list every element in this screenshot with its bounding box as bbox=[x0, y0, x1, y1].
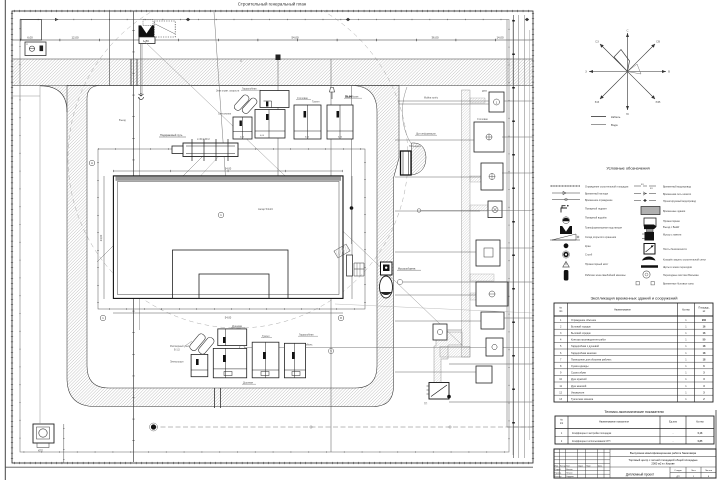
line x352 with dot bbox=[351, 86, 353, 244]
svg-text:Сидоров: Сидоров bbox=[566, 476, 574, 478]
top temp building E bbox=[327, 105, 353, 139]
svg-text:Проектируемый водопровод: Проектируемый водопровод bbox=[663, 200, 696, 203]
svg-text:Посты безопасности: Посты безопасности bbox=[663, 248, 687, 251]
svg-text:№док: №док bbox=[578, 464, 583, 467]
top tilted boats bbox=[233, 91, 258, 117]
svg-text:14,00: 14,00 bbox=[497, 36, 504, 40]
legend R4 temp building gray bbox=[641, 207, 660, 215]
hydrant circle marker mid right bbox=[417, 209, 421, 213]
svg-text:Туалет: Туалет bbox=[312, 101, 320, 104]
svg-text:Бытовой городок: Бытовой городок bbox=[571, 332, 592, 335]
svg-text:Душ мужской: Душ мужской bbox=[571, 378, 587, 381]
crane hook bbox=[139, 93, 144, 100]
svg-text:2000 м2 в г.Кирове: 2000 м2 в г.Кирове bbox=[651, 462, 675, 466]
legend R3 power bbox=[634, 200, 656, 202]
svg-text:Сушка обуви: Сушка обуви bbox=[571, 372, 587, 375]
svg-text:Въезд с Badkf: Въезд с Badkf bbox=[663, 226, 679, 229]
water tank ellipse bbox=[380, 276, 393, 298]
right fence vertical x507 bbox=[506, 20, 508, 428]
walkway hatch right column bbox=[462, 90, 471, 357]
bottom building small bbox=[191, 354, 208, 376]
right temp building 8 bbox=[486, 338, 503, 356]
building top gray band bbox=[116, 177, 342, 181]
legend R1 waterline bbox=[634, 185, 656, 187]
svg-text:Пожарный гидрант: Пожарный гидрант bbox=[585, 207, 608, 210]
work zone boundary bbox=[98, 149, 365, 309]
bottom tilted boats bbox=[189, 330, 216, 357]
svg-text:СВ: СВ bbox=[656, 40, 660, 44]
svg-text:Коэффициент использования СГП: Коэффициент использования СГП bbox=[572, 440, 611, 443]
utility box A with circle bbox=[25, 42, 46, 56]
legend L11 black bar bbox=[564, 270, 569, 281]
svg-text:Площадка: Площадка bbox=[409, 145, 421, 148]
svg-text:Столб: Столб bbox=[585, 254, 593, 257]
stand board in road bbox=[401, 151, 412, 175]
telephone cable line y347 bbox=[245, 347, 533, 349]
road east pocket bbox=[412, 143, 427, 175]
svg-text:Временная сеть низкого: Временная сеть низкого bbox=[663, 193, 692, 196]
svg-text:Подп: Подп bbox=[586, 465, 591, 467]
wind rose letters bbox=[585, 29, 670, 117]
svg-text:Столовая: Столовая bbox=[477, 118, 488, 121]
page border left bbox=[4, 0, 6, 480]
svg-text:0,16: 0,16 bbox=[698, 432, 703, 435]
svg-text:6,00: 6,00 bbox=[27, 36, 33, 40]
svg-text:Мусор с панели: Мусор с панели bbox=[663, 233, 682, 236]
table right edge line bbox=[715, 410, 717, 478]
dimension ticks on top line bbox=[20, 39, 533, 42]
right temp building 3 bbox=[481, 163, 503, 190]
top temp building D bbox=[294, 105, 321, 139]
table 1 frame bbox=[554, 303, 713, 402]
svg-text:м²: м² bbox=[703, 310, 706, 313]
table 2 frame bbox=[555, 416, 714, 444]
survey border ticks left bbox=[11, 13, 13, 463]
survey border ticks bottom bbox=[14, 462, 533, 464]
svg-text:СЗ: СЗ bbox=[595, 40, 599, 44]
table 1 header text bbox=[559, 307, 710, 314]
svg-text:Кол.уч: Кол.уч bbox=[560, 465, 566, 467]
crane radius dashed circle bbox=[68, 0, 408, 328]
building dimension line top bbox=[113, 170, 343, 172]
bottom building 1 bbox=[218, 329, 247, 346]
svg-text:Коэффициент застройки площадки: Коэффициент застройки площадки bbox=[572, 432, 612, 435]
top road band bbox=[12, 59, 533, 86]
svg-text:КПП: КПП bbox=[482, 90, 487, 93]
legend L7 triangle guys bbox=[552, 234, 576, 240]
fence marker diamonds bbox=[55, 18, 529, 22]
svg-text:0,85: 0,85 bbox=[698, 440, 703, 443]
svg-text:Н.контр.: Н.контр. bbox=[555, 476, 563, 478]
svg-text:1,80: 1,80 bbox=[143, 39, 149, 43]
svg-text:Кабель: Кабель bbox=[611, 115, 621, 119]
svg-text:Сушка одежды: Сушка одежды bbox=[571, 365, 589, 368]
building bottom step inner bbox=[199, 274, 269, 298]
legend L4 hydrant bbox=[561, 206, 567, 213]
svg-text:В: В bbox=[668, 70, 670, 74]
svg-text:Б-1,5: Б-1,5 bbox=[174, 349, 180, 352]
legend R11 circle bbox=[643, 271, 650, 278]
bottom building 4 bbox=[284, 343, 305, 378]
axis line x110 bbox=[109, 11, 111, 86]
svg-text:Временное ограждение: Временное ограждение bbox=[585, 199, 613, 202]
svg-text:Вода: Вода bbox=[611, 123, 618, 127]
svg-text:ТП: ТП bbox=[424, 403, 427, 406]
svg-text:Пожарный водоём: Пожарный водоём bbox=[585, 216, 607, 219]
road west flare fillet bbox=[40, 86, 67, 112]
building inner wall line bbox=[118, 182, 340, 295]
left margin vertical line x40 bbox=[39, 86, 41, 424]
trash containers right of building bbox=[347, 255, 353, 276]
axis bubbles bottom bbox=[100, 315, 106, 321]
mini legend cable bbox=[591, 116, 606, 118]
top dimension line bbox=[12, 39, 533, 41]
svg-text:Провер.: Провер. bbox=[555, 473, 563, 475]
guy line diagonal 4 bbox=[126, 155, 220, 256]
svg-text:Бытовой городок: Бытовой городок bbox=[571, 325, 592, 328]
guy line diagonal 1 bbox=[214, 12, 234, 299]
title block left grid bbox=[554, 449, 716, 478]
crane counterweight dashed zone bbox=[154, 21, 175, 37]
legend L6 crane symbol bbox=[560, 226, 572, 234]
svg-text:Туалетная комната: Туалетная комната bbox=[571, 398, 594, 401]
svg-text:Растворный узел: Растворный узел bbox=[170, 345, 190, 348]
svg-text:Разраб.: Разраб. bbox=[555, 469, 562, 471]
mini legend water bbox=[591, 124, 606, 126]
table 2 text bbox=[560, 419, 705, 426]
survey border ticks top bbox=[14, 10, 533, 12]
svg-text:Душ женский: Душ женский bbox=[571, 385, 587, 388]
right edge line x513 bbox=[512, 19, 514, 455]
svg-text:А: А bbox=[91, 161, 93, 165]
scattered axis bubble bottom x331 bbox=[328, 348, 333, 353]
svg-text:Лист: Лист bbox=[566, 465, 570, 467]
ticks on utility line bbox=[132, 30, 134, 455]
axis line x278 with hook bbox=[277, 59, 279, 266]
svg-text:Козырёк защиты строительной се: Козырёк защиты строительной сетки bbox=[663, 258, 706, 261]
svg-text:Ограждение строительной площад: Ограждение строительной площадки bbox=[585, 185, 629, 188]
svg-text:54,00: 54,00 bbox=[292, 36, 299, 40]
svg-text:Петров: Петров bbox=[566, 473, 572, 475]
svg-text:Технико-экономические показате: Технико-экономические показатели bbox=[604, 410, 663, 414]
svg-text:ЮВ: ЮВ bbox=[656, 100, 661, 104]
legend R7 black square bbox=[645, 232, 655, 241]
TP transformer box bbox=[429, 383, 449, 400]
svg-text:Светильник: Светильник bbox=[218, 113, 232, 116]
svg-text:L=30,0 М=2: L=30,0 М=2 bbox=[197, 138, 210, 141]
svg-text:Иванов: Иванов bbox=[566, 469, 573, 471]
right temp building 5 bbox=[476, 240, 500, 266]
svg-text:Дипломный проект: Дипломный проект bbox=[626, 473, 655, 477]
svg-text:Кол-во: Кол-во bbox=[682, 309, 690, 312]
legend L10 warning triangle bbox=[563, 262, 569, 268]
svg-text:Склад открытого хранения: Склад открытого хранения bbox=[585, 236, 617, 239]
electrical panel on road bbox=[381, 262, 393, 275]
bottom gate marks bbox=[214, 388, 216, 408]
legend L5 half circle bbox=[563, 218, 570, 222]
tower crane K1 body bbox=[139, 25, 155, 37]
top temp building C bbox=[233, 117, 252, 139]
guy line diagonal 2 bbox=[144, 41, 463, 346]
svg-text:Помещение для обогрева рабочих: Помещение для обогрева рабочих bbox=[571, 358, 612, 361]
svg-text:Мойка колёс: Мойка колёс bbox=[424, 97, 439, 100]
svg-text:Ограждение обычное: Ограждение обычное bbox=[571, 319, 597, 322]
svg-text:Стадия: Стадия bbox=[674, 470, 682, 472]
dimension marks under top buildings bbox=[240, 135, 343, 138]
svg-text:Выпускная квалификационная раб: Выпускная квалификационная работа бакала… bbox=[630, 451, 697, 455]
building outline bbox=[113, 176, 343, 299]
svg-text:12,00: 12,00 bbox=[72, 36, 79, 40]
fence posts dots bbox=[20, 20, 509, 453]
utility line x133 bbox=[133, 11, 135, 462]
legend R6 flag arrow bbox=[644, 225, 657, 230]
site fence bbox=[20, 20, 509, 453]
legend L1 fence symbol bbox=[550, 185, 580, 187]
crane rail left stub bbox=[172, 146, 183, 154]
bottom right building bbox=[433, 324, 447, 340]
svg-text:Лист: Лист bbox=[691, 470, 696, 472]
bottom-right walkway hatch L bbox=[434, 332, 462, 383]
faint diagonal y307 bbox=[335, 304, 533, 313]
svg-text:КПП: КПП bbox=[38, 450, 43, 453]
legend R12 small squares bbox=[636, 282, 639, 285]
svg-text:Ю: Ю bbox=[626, 112, 629, 116]
svg-text:Прожекторная: Прожекторная bbox=[663, 220, 680, 223]
svg-text:ДП: ДП bbox=[676, 476, 679, 478]
gate marker on top road bbox=[130, 59, 132, 86]
building dimension line bottom bbox=[113, 312, 343, 314]
left margin short horizontal bbox=[12, 95, 40, 97]
legend R9 blob bbox=[642, 257, 656, 261]
dimension numbers bbox=[27, 36, 504, 40]
right area horizontal line y364 bbox=[449, 363, 533, 365]
svg-text:Торговый центр с летней площад: Торговый центр с летней площадкой общей … bbox=[629, 458, 698, 462]
title block main text bbox=[610, 456, 716, 458]
svg-text:Рабочая зона сваебойной машины: Рабочая зона сваебойной машины bbox=[585, 274, 626, 277]
svg-text:Переходные мостики Вальман: Переходные мостики Вальман bbox=[663, 274, 699, 277]
right edge line x524 bbox=[524, 15, 526, 458]
title block left tiny text bbox=[555, 464, 604, 478]
svg-text:Временные здания: Временные здания bbox=[663, 210, 686, 213]
svg-text:36,00: 36,00 bbox=[432, 36, 439, 40]
svg-text:Экспликация временных зданий и: Экспликация временных зданий и сооружени… bbox=[591, 296, 678, 301]
svg-text:Контора производителя работ: Контора производителя работ bbox=[571, 339, 607, 342]
svg-text:Гардеробная с душевой: Гардеробная с душевой bbox=[571, 345, 600, 348]
legend R8 white square diagonal bbox=[644, 244, 655, 255]
svg-text:Трансформаторная подстанция: Трансформаторная подстанция bbox=[585, 226, 623, 229]
street lamp bbox=[331, 92, 333, 99]
ramp tilted near building bbox=[334, 244, 350, 258]
legend L9 donut bbox=[563, 252, 568, 257]
right dimension line bbox=[351, 176, 353, 299]
svg-text:Кол-во: Кол-во bbox=[696, 421, 704, 424]
svg-text:Временный водопровод: Временный водопровод bbox=[663, 185, 691, 188]
svg-text:54,00: 54,00 bbox=[225, 316, 232, 320]
power line y427 bbox=[153, 426, 533, 428]
bottom building 3 bbox=[252, 342, 279, 378]
right edge power line with posts x513 bbox=[513, 15, 515, 458]
svg-text:Ангар 54x24: Ангар 54x24 bbox=[258, 207, 273, 211]
wind rose bbox=[589, 33, 666, 110]
horizontal line y282 bbox=[403, 281, 533, 283]
svg-text:А: А bbox=[26, 42, 28, 46]
svg-text:Кран: Кран bbox=[585, 245, 591, 248]
crane hook line bbox=[139, 44, 141, 95]
legend R10 thick line bbox=[641, 265, 658, 267]
svg-text:Ед.изм: Ед.изм bbox=[669, 421, 677, 424]
svg-text:Листов: Листов bbox=[705, 470, 713, 472]
entrance curve bbox=[402, 87, 411, 144]
svg-text:Умывальня: Умывальня bbox=[571, 391, 585, 394]
building bottom step outer bbox=[173, 250, 289, 298]
legend L3 temp fence bbox=[552, 199, 580, 201]
left dimension line bbox=[103, 176, 105, 299]
svg-text:Временный на воде: Временный на воде bbox=[585, 192, 609, 195]
svg-text:Электрощит: Электрощит bbox=[170, 361, 184, 364]
svg-text:Въезд: Въезд bbox=[119, 119, 126, 122]
svg-text:Условные обозначения: Условные обозначения bbox=[606, 166, 649, 171]
svg-text:Знак огран. скорости: Знак огран. скорости bbox=[216, 90, 240, 93]
corner block top-left bbox=[21, 20, 42, 41]
svg-text:Подкрановый путь: Подкрановый путь bbox=[160, 133, 183, 137]
legend R2 sewer bbox=[634, 193, 656, 195]
guy line diagonal 3 bbox=[97, 151, 208, 262]
ring road left bottom right bbox=[67, 86, 399, 407]
bottom building 2 bbox=[213, 348, 246, 377]
right temp building 6 bbox=[476, 282, 508, 306]
page border bottom bbox=[5, 466, 533, 468]
axis bubble left top bbox=[89, 160, 95, 166]
svg-text:З: З bbox=[585, 70, 587, 74]
svg-text:Строительный генеральный план: Строительный генеральный план bbox=[238, 2, 307, 7]
axis line x331 bbox=[330, 59, 332, 452]
title block frame bbox=[554, 449, 716, 478]
top temp building A bbox=[260, 91, 289, 108]
svg-text:С: С bbox=[626, 29, 628, 33]
crane base cab bbox=[139, 37, 155, 44]
svg-text:960: 960 bbox=[702, 319, 707, 322]
right temp building 2 bbox=[474, 122, 504, 152]
crane small dashed top bbox=[143, 20, 153, 26]
table 1 rows text bbox=[559, 319, 706, 401]
short line bottom left bbox=[63, 424, 65, 463]
wind rose polygon bbox=[614, 50, 630, 72]
svg-text:24,00: 24,00 bbox=[99, 234, 103, 241]
top temp building B bbox=[255, 110, 285, 139]
svg-text:ЮЗ: ЮЗ bbox=[595, 100, 600, 104]
survey border frame bbox=[12, 11, 533, 463]
connector lines right column bbox=[395, 101, 533, 372]
right edge line x529 bbox=[529, 30, 531, 440]
legend R5 white rect with base bbox=[644, 218, 656, 226]
right temp building 1 bbox=[489, 92, 504, 112]
legend L2 water line symbol bbox=[552, 192, 580, 194]
title block stage cells bbox=[670, 467, 716, 478]
svg-text:Наименование: Наименование bbox=[614, 309, 631, 312]
svg-text:Щиты в зонах переходов: Щиты в зонах переходов bbox=[663, 266, 693, 269]
building axis bubble bbox=[218, 212, 224, 218]
right temp building 7 bbox=[481, 312, 504, 329]
svg-text:54,00: 54,00 bbox=[225, 167, 232, 171]
crane rail bbox=[183, 143, 238, 157]
svg-text:Временные бытовые зоны: Временные бытовые зоны bbox=[663, 283, 694, 286]
svg-text:Гардеробная женская: Гардеробная женская bbox=[571, 352, 597, 355]
legend L8 black dot bbox=[564, 243, 569, 248]
svg-text:Прожекторный мост: Прожекторный мост bbox=[585, 263, 609, 266]
right area horizontal line y402 bbox=[449, 401, 533, 403]
survey border ticks right bbox=[532, 13, 534, 463]
left bottom checkpoint bbox=[33, 424, 54, 443]
right temp building 9 bbox=[476, 366, 492, 383]
right temp building 4 bbox=[488, 201, 502, 218]
mortar station label line bbox=[185, 341, 192, 346]
svg-text:Наименование показателя: Наименование показателя bbox=[599, 421, 629, 424]
svg-text:25,00: 25,00 bbox=[345, 95, 352, 99]
